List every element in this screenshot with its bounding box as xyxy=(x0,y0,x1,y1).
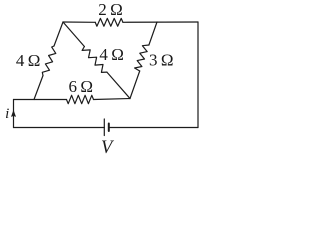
svg-text:i: i xyxy=(5,106,9,122)
wire middle-left from corner to resistor R5 xyxy=(14,99,67,101)
svg-text:V: V xyxy=(101,138,115,157)
current arrowhead on left wire xyxy=(11,110,16,117)
resistor R3 4ohm middle zigzag xyxy=(82,47,107,73)
resistor R4 3ohm: wire zig to node B xyxy=(130,71,140,99)
svg-text:3 Ω: 3 Ω xyxy=(149,50,174,69)
resistor R2 4ohm left: wire zig to node C xyxy=(34,76,43,100)
wire bottom-right to battery xyxy=(109,127,198,129)
resistor R4 3ohm: wire top junction to zig xyxy=(149,22,157,45)
battery V long plate xyxy=(103,119,105,136)
resistor R2 4ohm left zigzag xyxy=(42,46,56,76)
wire bottom-left from battery to corner xyxy=(14,127,105,129)
resistor R1 2ohm zigzag xyxy=(95,18,123,26)
resistor R3 4ohm middle: wire A to zig xyxy=(63,22,84,47)
wire top-left from node A to resistor R1 xyxy=(63,21,95,23)
svg-text:6 Ω: 6 Ω xyxy=(69,77,94,96)
resistor R3 4ohm middle: wire zig to node B xyxy=(107,72,130,98)
wire left vertical with current xyxy=(13,100,15,128)
battery V short plate xyxy=(108,124,110,132)
resistor R4 3ohm zigzag xyxy=(135,45,149,71)
wire right vertical xyxy=(197,22,199,128)
resistor R2 4ohm left: wire A to zig xyxy=(54,22,63,46)
svg-text:2 Ω: 2 Ω xyxy=(98,0,123,19)
resistor R5 6ohm zigzag xyxy=(67,95,94,103)
svg-text:4 Ω: 4 Ω xyxy=(16,51,41,70)
wire top-right from R1 to top-right corner xyxy=(123,21,198,23)
wire middle-right from R5 to node B xyxy=(94,99,131,100)
svg-text:4 Ω: 4 Ω xyxy=(99,45,124,64)
